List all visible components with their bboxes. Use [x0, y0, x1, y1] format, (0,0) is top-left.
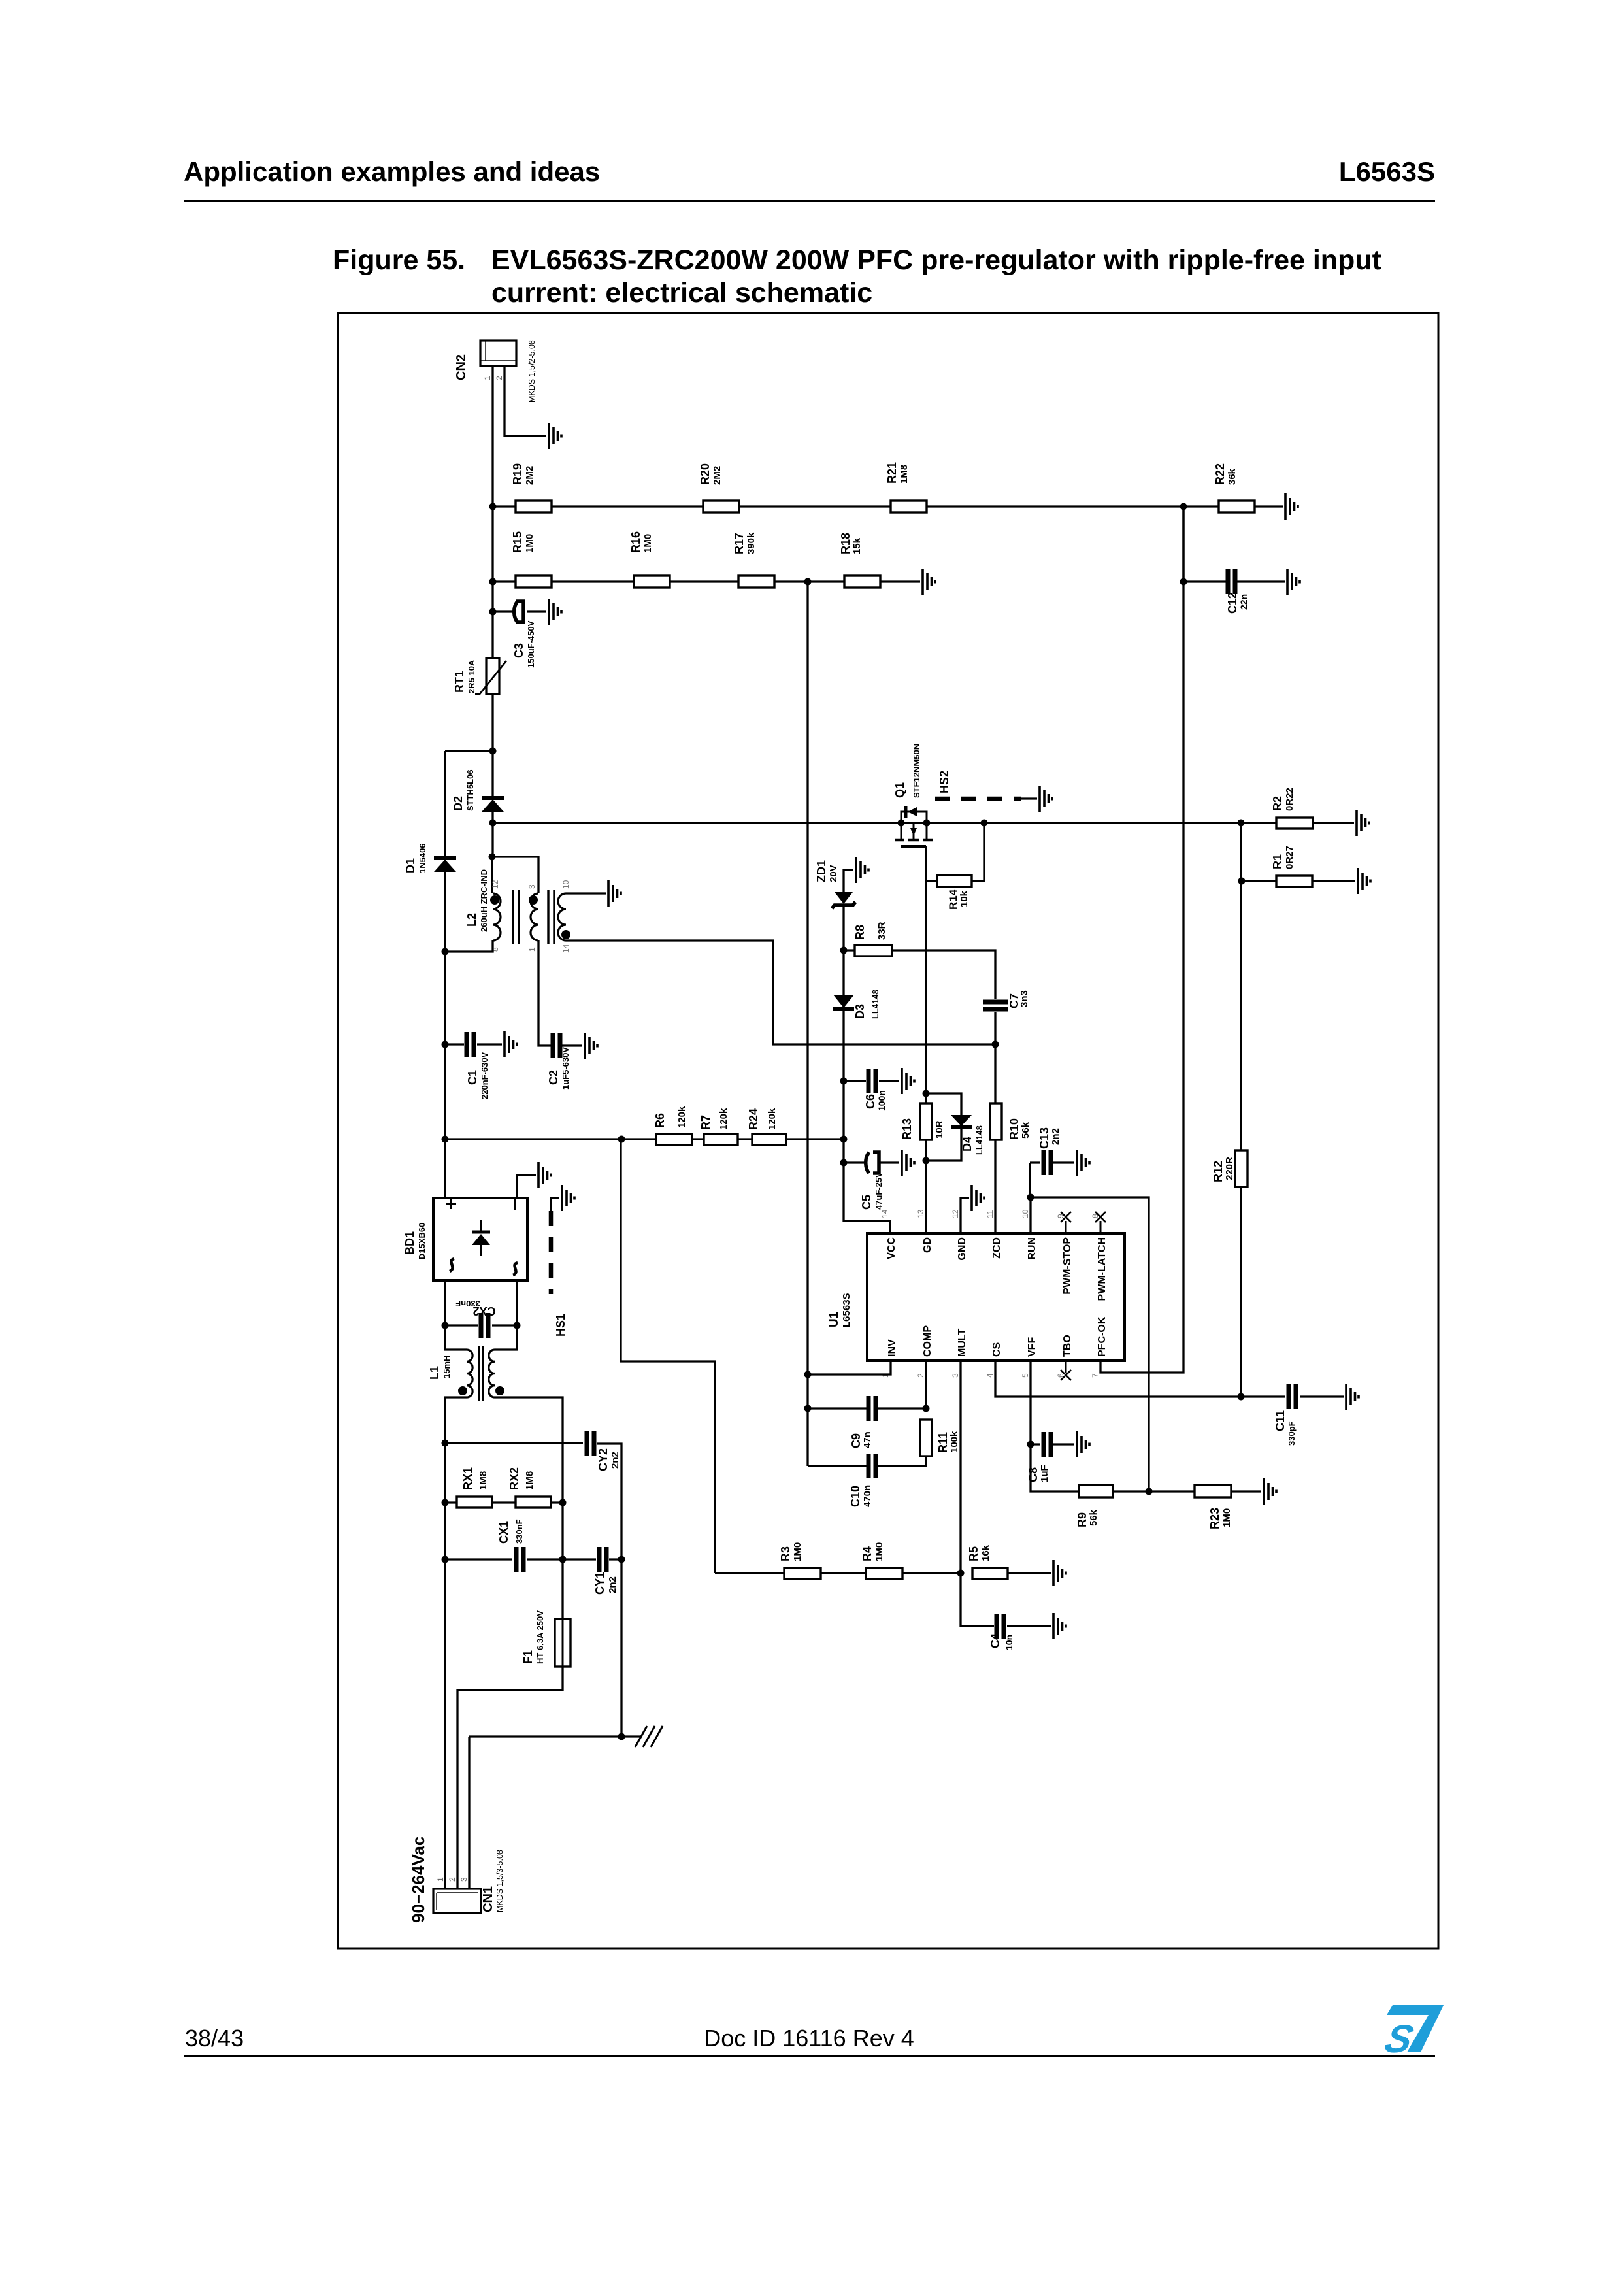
junction startup/earth column — [618, 1136, 625, 1143]
wire COMP pin column — [925, 1361, 927, 1408]
svg-text:L2: L2 — [465, 913, 478, 927]
svg-text:2M2: 2M2 — [712, 466, 723, 485]
wire C1 row — [445, 1043, 502, 1045]
junction R15 node — [489, 578, 497, 586]
inductor L2 secondary winding — [531, 893, 538, 940]
wire R3 row — [715, 1572, 1051, 1574]
svg-text:C5: C5 — [860, 1195, 873, 1210]
resistor R1 — [1276, 876, 1312, 887]
transistor Q1 body diode — [904, 806, 908, 818]
svg-text:CN1: CN1 — [481, 1886, 495, 1912]
phase dot L2 pin 3 — [529, 895, 538, 905]
wire C12 branch — [1182, 507, 1184, 582]
resistor R4 — [866, 1568, 902, 1579]
wire R14 row — [926, 823, 984, 881]
capacitor C6 — [868, 1069, 876, 1093]
junction boost input tap — [489, 748, 497, 755]
svg-text:R7: R7 — [699, 1115, 712, 1130]
header rule — [184, 200, 1435, 202]
svg-text:CY1: CY1 — [593, 1572, 606, 1595]
junction ZCD node — [992, 1041, 999, 1048]
svg-text:ZD1: ZD1 — [815, 860, 828, 882]
wire BD1 AC legs — [445, 1280, 517, 1325]
fuse F1 — [555, 1619, 570, 1667]
svg-text:LL4148: LL4148 — [870, 990, 880, 1019]
wire ZD1 anode to R8 node — [842, 907, 844, 950]
svg-text:1M0: 1M0 — [1221, 1508, 1232, 1527]
capacitor CY1 — [599, 1547, 606, 1572]
junction gate drive top — [923, 1090, 930, 1097]
footer rule — [184, 2055, 1435, 2057]
resistor R21 — [891, 501, 927, 512]
wire L1 left bottom — [445, 1397, 467, 1889]
chassis earth symbol — [635, 1726, 663, 1747]
svg-text:330nF: 330nF — [514, 1519, 524, 1544]
pin 12 GND stub of U1 — [960, 1221, 962, 1233]
transistor Q1 channel — [901, 823, 927, 839]
svg-text:GND: GND — [957, 1237, 968, 1261]
junction CX1 left — [442, 1556, 449, 1563]
inductor L2 ZCD winding — [558, 893, 566, 940]
ground at L2 pin 10 — [608, 880, 621, 907]
junction CX1 right — [559, 1556, 567, 1563]
diode D1 — [434, 856, 456, 860]
svg-text:Doc ID 16116 Rev 4: Doc ID 16116 Rev 4 — [704, 2025, 914, 2052]
junction R9/R23/RUN node — [1146, 1488, 1153, 1495]
svg-text:2n2: 2n2 — [610, 1452, 621, 1469]
svg-text:CX1: CX1 — [497, 1521, 510, 1544]
wire C7 to ZCD node — [994, 1012, 996, 1044]
svg-text:2n2: 2n2 — [607, 1576, 618, 1593]
capacitor CX2 — [481, 1313, 488, 1338]
pin 14 VCC stub of U1 — [889, 1221, 891, 1233]
resistor R6 — [656, 1134, 692, 1145]
svg-text:36k: 36k — [1227, 468, 1238, 485]
junction Q1 source — [923, 820, 931, 827]
resistor R9 — [1079, 1485, 1113, 1497]
junction C9 left — [804, 1405, 812, 1412]
capacitor C7 — [983, 1002, 1008, 1009]
junction RX2 right — [559, 1499, 567, 1506]
svg-text:3: 3 — [527, 884, 537, 889]
ground after C3 — [549, 599, 561, 625]
svg-text:10R: 10R — [934, 1120, 945, 1139]
svg-text:38/43: 38/43 — [185, 2025, 244, 2052]
resistor R3 — [784, 1568, 821, 1579]
wire L2 pin12 lead — [491, 857, 493, 893]
svg-text:10k: 10k — [959, 890, 970, 907]
ground after R18 — [923, 569, 935, 595]
ground of HS1 — [562, 1185, 574, 1211]
wire earth row — [469, 1735, 642, 1737]
svg-text:C11: C11 — [1274, 1410, 1287, 1431]
capacitor C8 — [1044, 1432, 1051, 1457]
wire R19 row — [493, 505, 1283, 507]
svg-text:C4: C4 — [989, 1633, 1002, 1648]
phase dot L1 left — [458, 1386, 467, 1395]
ground at BD1 minus — [538, 1162, 551, 1188]
ground after R5 — [1053, 1560, 1066, 1586]
svg-text:12: 12 — [491, 880, 500, 889]
svg-text:56k: 56k — [1020, 1122, 1031, 1139]
resistor R20 — [703, 501, 739, 512]
wire L2 pin8 lead — [445, 940, 493, 952]
svg-text:D1: D1 — [404, 858, 417, 873]
svg-text:4: 4 — [985, 1373, 995, 1378]
capacitor C9 — [868, 1396, 876, 1421]
inductor L2 aux core — [548, 890, 554, 944]
svg-text:120k: 120k — [767, 1108, 778, 1130]
diode D2 — [482, 796, 504, 800]
svg-text:2: 2 — [916, 1373, 925, 1378]
wire D1 anode down to L2 pin8 node — [444, 871, 446, 952]
inductor L1 right winding — [489, 1350, 495, 1397]
svg-text:Application examples and ideas: Application examples and ideas — [184, 156, 600, 187]
no-connect cross on TBO — [1061, 1370, 1071, 1380]
svg-text:2R5 10A: 2R5 10A — [467, 659, 476, 693]
ground after C1 — [504, 1031, 517, 1057]
svg-text:1M0: 1M0 — [874, 1542, 885, 1561]
resistor R10 — [990, 1103, 1002, 1140]
wire INV column — [806, 582, 808, 1466]
wire D2 anode to drain line — [491, 811, 493, 857]
capacitor CX1 — [516, 1547, 523, 1572]
transistor Q1 gate — [901, 845, 926, 848]
pin 5 VFF stub of U1 — [1030, 1361, 1032, 1373]
resistor R22 — [1219, 501, 1255, 512]
svg-text:33R: 33R — [876, 922, 887, 940]
svg-text:90−264Vac: 90−264Vac — [408, 1837, 428, 1923]
wire node down to R15 row — [491, 507, 493, 582]
svg-text:PFC-OK: PFC-OK — [1097, 1316, 1108, 1357]
junction L2 pin8/C1 column — [442, 948, 449, 956]
svg-text:R8: R8 — [853, 925, 867, 940]
svg-text:R13: R13 — [901, 1118, 914, 1140]
svg-text:5: 5 — [1021, 1373, 1030, 1378]
wire CN2 pin 2 to ground — [504, 366, 546, 436]
svg-text:PWM-STOP: PWM-STOP — [1062, 1237, 1073, 1295]
svg-text:2: 2 — [448, 1877, 457, 1882]
junction INV pin node — [804, 1371, 812, 1378]
capacitor C13 — [1044, 1150, 1051, 1175]
svg-text:CN2: CN2 — [454, 354, 469, 380]
svg-text:TBO: TBO — [1062, 1335, 1073, 1357]
wire main drain/source line — [493, 822, 1241, 824]
svg-text:1: 1 — [483, 376, 492, 380]
phase dot L2 pin 14 — [561, 930, 570, 939]
svg-text:120k: 120k — [676, 1106, 687, 1128]
wire C8 row — [1031, 1443, 1074, 1445]
svg-text:L6563S: L6563S — [1339, 156, 1435, 187]
capacitor C11 — [1289, 1384, 1296, 1409]
svg-text:100k: 100k — [949, 1431, 960, 1453]
svg-text:12: 12 — [951, 1209, 960, 1218]
svg-text:330nF: 330nF — [455, 1299, 480, 1308]
resistor R13 — [920, 1103, 932, 1140]
wire C5 row — [844, 1161, 899, 1163]
wire R15 row — [493, 580, 920, 582]
wire CS route — [995, 1361, 1238, 1397]
ground after C11 — [1346, 1384, 1359, 1410]
phase dot L2 pin 12 — [490, 895, 499, 905]
junction C1 node — [442, 1041, 449, 1048]
svg-text:BD1: BD1 — [403, 1231, 416, 1255]
wire D2 node down — [491, 751, 493, 797]
wire L2 pin10 to ground — [566, 892, 606, 894]
resistor R12 — [1235, 1150, 1248, 1187]
svg-text:13: 13 — [916, 1209, 925, 1218]
svg-text:VCC: VCC — [886, 1237, 897, 1259]
svg-text:L6563S: L6563S — [841, 1293, 852, 1327]
op-amp U1 body (IC L6563S) — [867, 1233, 1125, 1361]
pin 13 GD stub of U1 — [925, 1221, 927, 1233]
svg-text:R2: R2 — [1271, 796, 1284, 811]
ground after R1 — [1358, 868, 1370, 894]
svg-text:1: 1 — [527, 947, 537, 952]
svg-text:C6: C6 — [864, 1094, 877, 1109]
junction C12/VFF node — [1180, 578, 1187, 586]
junction ZD1/R8/D3 node — [840, 947, 848, 954]
wire VCC rail — [844, 1081, 890, 1233]
no-connect cross on PWM-STOP — [1061, 1212, 1071, 1222]
pin 6 TBO stub of U1 — [1065, 1361, 1067, 1373]
wire RUN node — [1030, 1163, 1149, 1491]
junction C8 node — [1027, 1441, 1034, 1448]
svg-text:R3: R3 — [779, 1546, 792, 1561]
svg-text:C3: C3 — [512, 643, 525, 658]
junction VCC/startup node — [840, 1136, 848, 1143]
ground after C13 — [1077, 1150, 1089, 1176]
svg-text:EVL6563S-ZRC200W 200W PFC pre-: EVL6563S-ZRC200W 200W PFC pre-regulator … — [491, 244, 1381, 276]
wire CY2 row — [445, 1443, 621, 1559]
thermistor RT1 — [486, 658, 499, 694]
resistor R16 — [634, 576, 670, 588]
resistor R8 — [855, 945, 892, 956]
svg-text:3: 3 — [459, 1877, 469, 1882]
wire to C12 — [1183, 580, 1285, 582]
wire HS2 to ground — [1021, 797, 1037, 799]
pin 8 PWM-LATCH stub of U1 — [1100, 1221, 1102, 1233]
svg-text:COMP: COMP — [922, 1325, 933, 1357]
wire L1 left lead — [445, 1325, 467, 1350]
svg-text:1N5406: 1N5406 — [418, 843, 427, 873]
ground at ZD1 cathode — [856, 857, 868, 883]
svg-text:PWM-LATCH: PWM-LATCH — [1097, 1237, 1108, 1301]
wire sense column — [1240, 823, 1242, 1397]
wire MULT divider input — [621, 1139, 715, 1573]
junction L2 pin 12 node — [489, 854, 496, 861]
wire CN2 pin 1 down to R19 row — [491, 366, 493, 507]
svg-text:RUN: RUN — [1027, 1237, 1038, 1260]
svg-text:3: 3 — [951, 1373, 960, 1378]
junction drain node at D2 — [489, 820, 497, 827]
wire earth to CN1 pin3 — [468, 1737, 470, 1889]
wire C4 branch — [961, 1573, 1051, 1626]
capacitor C1 — [467, 1032, 474, 1057]
wire L1 right lead — [495, 1325, 517, 1350]
ground after C12 — [1287, 569, 1300, 595]
svg-text:1M8: 1M8 — [478, 1471, 489, 1490]
wire D3 cathode to VCC rail — [842, 1010, 844, 1081]
svg-text:C2: C2 — [547, 1070, 560, 1085]
svg-text:R11: R11 — [936, 1432, 950, 1453]
svg-text:Q1: Q1 — [893, 782, 906, 798]
wire ZCD column — [994, 1044, 996, 1233]
wire CX2 row — [445, 1324, 517, 1326]
svg-text:15mH: 15mH — [442, 1356, 452, 1378]
wire D3 branch — [842, 950, 844, 995]
junction RUN pin node — [1027, 1194, 1034, 1201]
resistor R7 — [704, 1134, 738, 1145]
svg-text:1M8: 1M8 — [524, 1471, 535, 1490]
resistor R17 — [738, 576, 774, 588]
wire ZD1 ground lead — [844, 870, 853, 892]
svg-text:CS: CS — [991, 1342, 1002, 1357]
svg-text:C12: C12 — [1226, 592, 1239, 614]
capacitor C12 — [1228, 569, 1235, 594]
svg-text:R4: R4 — [861, 1546, 874, 1561]
junction C6 node — [840, 1078, 848, 1085]
resistor R14 — [937, 875, 972, 887]
svg-text:GD: GD — [922, 1237, 933, 1253]
capacitor C4 — [997, 1614, 1004, 1639]
svg-text:56k: 56k — [1088, 1509, 1099, 1526]
svg-text:R14: R14 — [947, 889, 959, 910]
svg-text:1uF: 1uF — [1039, 1465, 1050, 1482]
svg-text:R6: R6 — [653, 1113, 667, 1128]
svg-text:150uF-450V: 150uF-450V — [526, 620, 536, 668]
svg-text:MKDS 1,5/3-5.08: MKDS 1,5/3-5.08 — [495, 1850, 504, 1912]
pin 9 PWM-STOP stub of U1 — [1065, 1221, 1067, 1233]
wire R1 row — [1242, 880, 1355, 882]
wire C11 row — [1241, 1395, 1344, 1397]
ground after C2 — [585, 1033, 597, 1059]
svg-text:220nF-630V: 220nF-630V — [480, 1052, 489, 1099]
svg-text:2n2: 2n2 — [1050, 1128, 1061, 1145]
inductor L2 primary winding — [493, 893, 501, 940]
junction C3 node — [489, 608, 497, 616]
svg-text:3n3: 3n3 — [1019, 990, 1030, 1007]
svg-text:R1: R1 — [1271, 854, 1284, 869]
wire gate line — [925, 846, 927, 1233]
ground of HS2 — [1040, 786, 1052, 812]
svg-text:STTH5L06: STTH5L06 — [465, 769, 475, 811]
wire L2 pin1 lead to C2 — [538, 940, 550, 1046]
ground at CN2 pin 2 — [549, 423, 561, 449]
ground at U1 GND pin — [972, 1185, 984, 1211]
svg-text:R23: R23 — [1208, 1508, 1221, 1529]
svg-text:R18: R18 — [839, 533, 852, 554]
inductor L1 core — [479, 1346, 483, 1401]
svg-text:R15: R15 — [511, 531, 524, 553]
svg-text:D2: D2 — [452, 796, 465, 811]
svg-text:1M0: 1M0 — [524, 534, 535, 553]
svg-text:HS1: HS1 — [554, 1314, 567, 1337]
connector CN2 — [480, 341, 516, 366]
svg-text:2M2: 2M2 — [524, 466, 535, 485]
svg-text:11: 11 — [985, 1210, 995, 1218]
svg-text:ZCD: ZCD — [991, 1237, 1002, 1259]
ST logo — [1381, 2005, 1444, 2061]
svg-text:R20: R20 — [699, 463, 712, 485]
svg-text:LL4148: LL4148 — [974, 1125, 984, 1155]
svg-text:R12: R12 — [1212, 1161, 1225, 1182]
svg-text:1uF5-630V: 1uF5-630V — [561, 1047, 570, 1090]
junction R1 node — [1238, 878, 1246, 885]
junction RX1 left — [442, 1499, 449, 1506]
resistor RX1 — [457, 1497, 492, 1508]
diode D4 — [951, 1115, 972, 1126]
diode D3 — [833, 995, 854, 1008]
svg-text:RX2: RX2 — [508, 1467, 521, 1490]
svg-text:MULT: MULT — [957, 1329, 968, 1357]
capacitor C3 — [514, 601, 518, 622]
svg-text:INV: INV — [887, 1339, 898, 1357]
wire CX1/CY1 row — [445, 1558, 621, 1560]
svg-text:R10: R10 — [1008, 1118, 1021, 1140]
svg-text:470n: 470n — [862, 1485, 873, 1507]
svg-text:R9: R9 — [1076, 1512, 1089, 1527]
resistor R18 — [844, 576, 880, 588]
junction gate drive bottom — [923, 1157, 930, 1165]
svg-text:HS2: HS2 — [938, 771, 951, 793]
svg-text:F1: F1 — [521, 1650, 535, 1664]
svg-text:1: 1 — [436, 1877, 445, 1882]
svg-text:2: 2 — [495, 376, 504, 380]
capacitor C10 — [868, 1454, 876, 1478]
ground after C4 — [1053, 1613, 1066, 1639]
svg-text:VFF: VFF — [1027, 1337, 1038, 1357]
wire C2 row — [550, 1044, 582, 1046]
svg-text:260uH ZRC-IND: 260uH ZRC-IND — [479, 869, 489, 932]
capacitor C5 — [866, 1152, 869, 1173]
junction C9/R11/COMP — [923, 1405, 930, 1412]
heatsink HS2 dashed line — [935, 797, 1021, 801]
svg-text:220R: 220R — [1224, 1157, 1235, 1180]
svg-text:R17: R17 — [733, 533, 746, 554]
svg-text:R21: R21 — [885, 462, 899, 484]
junction MULT node — [957, 1570, 965, 1577]
svg-text:current: electrical schematic: current: electrical schematic — [491, 277, 872, 308]
wire RT1 to D2 node — [491, 694, 493, 751]
wire C1 column — [444, 952, 446, 1044]
capacitor C2 — [553, 1033, 560, 1058]
junction source sense node — [1238, 820, 1245, 827]
heatsink HS1 dashed line — [549, 1211, 554, 1294]
capacitor CY2 — [587, 1431, 594, 1456]
wire L1 right bottom — [495, 1397, 563, 1619]
svg-text:CY2: CY2 — [597, 1448, 610, 1471]
svg-text:HT 6,3A 250V: HT 6,3A 250V — [535, 1610, 545, 1664]
junction C5 node — [840, 1159, 848, 1167]
phase dot L1 right — [495, 1386, 504, 1395]
ground after C6 — [902, 1068, 914, 1094]
ground after R2 — [1357, 810, 1369, 836]
pin 1 INV stub of U1 — [890, 1361, 892, 1373]
wire GND pin to ground — [961, 1198, 969, 1233]
resistor R15 — [516, 576, 552, 588]
svg-text:15k: 15k — [851, 537, 863, 554]
svg-text:330pF: 330pF — [1287, 1421, 1297, 1446]
svg-text:C9: C9 — [850, 1433, 863, 1448]
ground after C5 — [902, 1150, 914, 1176]
pin 3 MULT stub of U1 — [960, 1361, 962, 1373]
svg-text:1M0: 1M0 — [642, 534, 653, 553]
wire PFC-OK route — [1100, 507, 1183, 1373]
wire earth column — [620, 1559, 622, 1737]
wire C3 node to RT1 — [491, 612, 493, 658]
junction CY1 right earth column — [618, 1556, 625, 1563]
